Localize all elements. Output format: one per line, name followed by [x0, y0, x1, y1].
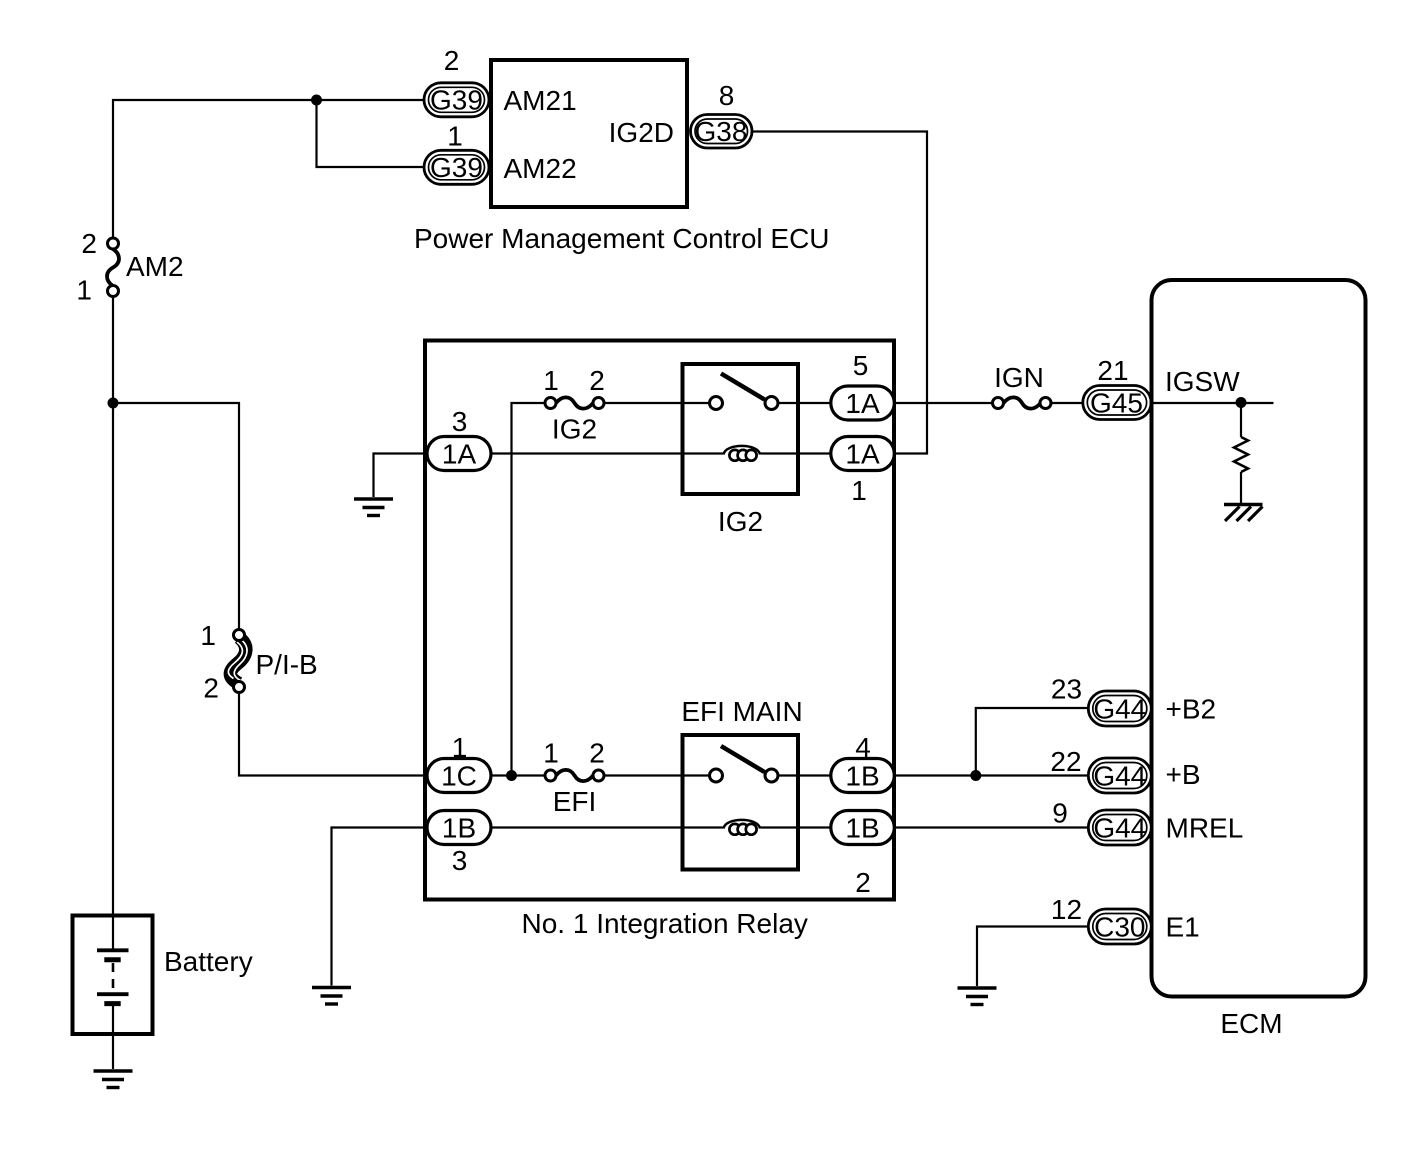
svg-text:3: 3 [452, 845, 468, 876]
svg-text:1B: 1B [442, 813, 476, 844]
node junction top feed [311, 95, 322, 106]
ground at E1 [958, 988, 997, 1005]
svg-text:1: 1 [447, 121, 463, 152]
svg-text:1: 1 [76, 275, 92, 306]
node junction IGSW [1236, 397, 1247, 408]
node junction +B branch [970, 770, 981, 781]
relay EFI MAIN box [683, 735, 799, 870]
pin 1B (2) oval [831, 811, 895, 845]
relay EFI MAIN blade [721, 746, 765, 772]
svg-text:G45: G45 [1090, 388, 1143, 419]
svg-text:IGN: IGN [994, 362, 1044, 393]
relay EFI MAIN coil [724, 820, 761, 835]
svg-text:G44: G44 [1093, 761, 1146, 792]
svg-text:1: 1 [543, 365, 559, 396]
wire coil row EFI left [491, 826, 723, 828]
fuse IGN [993, 397, 1052, 408]
svg-text:22: 22 [1050, 746, 1081, 777]
wire 1C to fuse EFI [491, 774, 545, 776]
wire 1A pin5 to fuse IGN [894, 402, 993, 404]
svg-text:E1: E1 [1166, 912, 1200, 943]
svg-text:1B: 1B [845, 761, 879, 792]
svg-text:G39: G39 [430, 152, 483, 183]
wire IG2 fuse feed riser [512, 403, 546, 776]
svg-text:2: 2 [444, 45, 460, 76]
svg-text:23: 23 [1051, 674, 1082, 705]
svg-text:2: 2 [203, 673, 219, 704]
svg-text:G44: G44 [1093, 694, 1146, 725]
svg-text:1A: 1A [845, 388, 880, 419]
svg-text:21: 21 [1097, 355, 1128, 386]
svg-text:C30: C30 [1094, 912, 1145, 943]
wire coil to 1B pin2 [761, 826, 832, 828]
wire junction to P/I-B [113, 403, 239, 630]
svg-text:IGSW: IGSW [1165, 366, 1240, 397]
svg-text:AM2: AM2 [126, 251, 184, 282]
svg-text:1: 1 [200, 620, 216, 651]
svg-text:+B2: +B2 [1166, 694, 1217, 725]
relay IG2 box [683, 364, 799, 494]
svg-text:1: 1 [543, 738, 559, 769]
svg-text:IG2: IG2 [718, 506, 763, 537]
ground below battery [94, 1071, 133, 1088]
svg-text:No. 1 Integration Relay: No. 1 Integration Relay [522, 908, 808, 939]
connector G38 pin 8 [691, 115, 753, 149]
wire branch to AM22 G39 pin1 [317, 100, 427, 167]
svg-text:G39: G39 [430, 85, 483, 116]
wire contact to 1B pin4 [778, 774, 831, 776]
pin 1B (3) oval [427, 811, 491, 845]
ground at 1A pin3 [354, 499, 393, 516]
svg-text:1B: 1B [845, 813, 879, 844]
chassis ground at IGSW [1224, 505, 1263, 522]
relay IG2 coil [724, 446, 761, 461]
fuse EFI [545, 770, 604, 781]
svg-text:+B: +B [1166, 759, 1201, 790]
svg-text:AM21: AM21 [504, 85, 577, 116]
svg-text:EFI: EFI [553, 786, 597, 817]
relay IG2 contact left [710, 397, 723, 410]
svg-text:9: 9 [1052, 798, 1068, 829]
fuse IG2 [545, 397, 604, 408]
svg-text:Power Management Control ECU: Power Management Control ECU [414, 223, 830, 254]
svg-text:8: 8 [719, 80, 735, 111]
ECU U1 Power Management Control ECU box [491, 60, 687, 207]
wire 1B pin2 to MREL [894, 826, 1089, 828]
svg-text:P/I-B: P/I-B [256, 649, 318, 680]
wire contact to 1A pin5 [778, 402, 831, 404]
svg-text:2: 2 [81, 228, 97, 259]
svg-text:G38: G38 [695, 116, 748, 147]
wire battery rail top and feed to G39 [113, 100, 426, 239]
svg-text:1A: 1A [845, 439, 880, 470]
wire P/I-B to 1C [239, 693, 427, 776]
wire fuse IG2 to relay contact [604, 402, 710, 404]
relay EFI MAIN contact left [710, 769, 723, 782]
svg-text:4: 4 [855, 732, 871, 763]
svg-text:1: 1 [851, 475, 867, 506]
wire ground riser at 1B pin3 [332, 828, 428, 986]
svg-text:2: 2 [589, 365, 605, 396]
pin 1A (3) oval [427, 437, 491, 471]
ECM box [1152, 280, 1366, 997]
svg-text:IG2D: IG2D [609, 117, 674, 148]
svg-text:ECM: ECM [1220, 1008, 1282, 1039]
svg-text:12: 12 [1051, 894, 1082, 925]
ground at 1B pin3 [312, 988, 351, 1005]
node junction battery rail [108, 398, 119, 409]
pin 1A (5) oval [831, 386, 895, 420]
relay EFI MAIN contact right [765, 769, 778, 782]
svg-text:5: 5 [853, 350, 869, 381]
wire ground riser at 1A pin3 [374, 454, 428, 498]
connector G39 pin 2 [424, 83, 489, 117]
wire fuse IGN to G45 [1051, 402, 1083, 404]
node junction at 1C [506, 770, 517, 781]
svg-text:MREL: MREL [1166, 813, 1244, 844]
connector C30 pin 12 [1088, 909, 1151, 944]
relay IG2 contact right [765, 397, 778, 410]
relay IG2 blade [721, 374, 765, 400]
resistor pull-down [1234, 437, 1248, 472]
svg-text:Battery: Battery [164, 946, 253, 977]
pin 1B (4) oval [831, 759, 895, 793]
fusible link P/I-B [228, 630, 247, 693]
wire branch to +B2 [976, 708, 1089, 776]
connector G44 pin 23 [1088, 691, 1151, 726]
svg-text:IG2: IG2 [552, 414, 597, 445]
wire G38 IG2D to relay 1A pin1 [753, 132, 928, 454]
svg-text:1: 1 [452, 732, 468, 763]
battery B1 [73, 916, 153, 1070]
svg-text:1A: 1A [442, 439, 477, 470]
svg-text:EFI MAIN: EFI MAIN [681, 696, 802, 727]
wire coil to 1A pin1 [761, 452, 832, 454]
svg-text:2: 2 [589, 738, 605, 769]
wire left rail lower [112, 297, 114, 917]
svg-text:2: 2 [855, 867, 871, 898]
connector G44 pin 22 [1088, 758, 1151, 793]
svg-text:G44: G44 [1093, 813, 1146, 844]
wire E1 ground riser [977, 927, 1089, 987]
connector G45 pin 21 [1083, 386, 1151, 420]
wire junction to resistor [1240, 403, 1242, 437]
wire fuse EFI to relay contact [604, 774, 710, 776]
wire coil row IG2 left [491, 452, 723, 454]
wire IGSW row [1152, 402, 1274, 404]
fuse AM2 [107, 238, 119, 297]
wire 1B pin4 to +B with branch [894, 774, 1089, 776]
relay assembly No. 1 Integration Relay box [425, 341, 894, 900]
wire resistor to chassis ground [1240, 472, 1242, 503]
pin 1A (1) oval [831, 437, 895, 471]
connector G44 pin 9 [1088, 810, 1151, 845]
pin 1C (1) oval [427, 759, 491, 793]
svg-text:AM22: AM22 [504, 153, 577, 184]
svg-text:3: 3 [452, 406, 468, 437]
connector G39 pin 1 [424, 150, 489, 184]
svg-text:1C: 1C [441, 761, 477, 792]
